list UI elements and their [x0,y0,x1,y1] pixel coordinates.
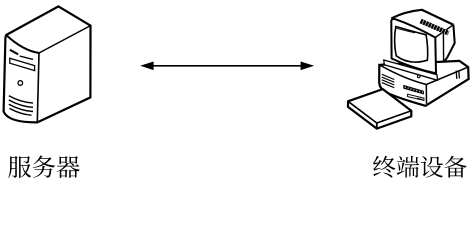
server vent line 4 [10,108,32,115]
server tower outline [4,6,91,122]
pc case side dashes [455,71,458,79]
monitor top vent hatch [421,21,449,33]
pc case front-top-left edge [379,65,426,85]
pc case hatched slot [404,86,424,94]
server front-right edge [37,53,39,122]
pc case body [379,61,468,106]
pc case front-top-right edge [426,67,468,84]
arrowhead right [301,62,315,71]
pc case front corner edge [425,85,427,104]
monitor screen [395,27,428,63]
pc case lower slot [408,94,424,100]
server drive bay slot [10,58,35,70]
server thin slot dash right [20,56,33,59]
pc case lower slot inner dash [417,98,422,99]
monitor base strip [384,60,438,80]
monitor screen inner top line [396,28,415,33]
label: terminal device (终端设备) [373,156,395,178]
pc case left vent dashes [382,74,395,87]
monitor top edge to apex [391,10,453,25]
monitor back step line [442,32,444,62]
keyboard top front-right edge [377,111,412,123]
server power button [18,81,23,86]
server vent line 1 [9,96,33,103]
label: server (服务器) [8,156,31,178]
server thin slot dash left [10,50,18,55]
keyboard top front-left edge [348,101,377,123]
server vent line 2 [9,100,33,107]
server front-top arc [6,35,39,53]
keyboard [348,89,411,129]
server vent line 3 [9,104,33,111]
monitor bezel [391,19,436,74]
arrowhead left [140,62,154,71]
monitor back body [391,10,454,61]
double arrow line [148,65,306,67]
monitor top-face right edge [435,25,453,38]
server top-face inner edge [39,26,91,53]
monitor power button [417,75,420,78]
keyboard front corner edge [376,123,378,129]
